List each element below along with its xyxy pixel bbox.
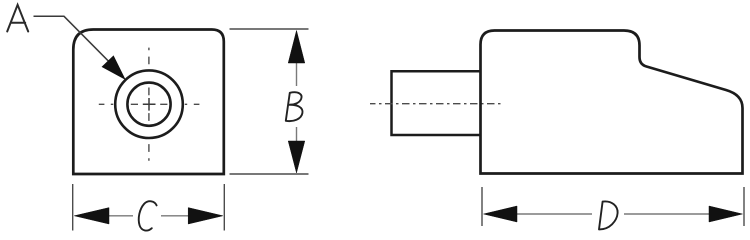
side view body outline [481,31,743,174]
dimension C right arrow [188,208,223,224]
dimension B bottom extension line [230,173,309,175]
dimension D left extension line [481,187,483,226]
dimension B line lower segment [296,127,298,143]
dimension D line right segment [624,213,709,215]
dimension C left extension line [72,184,74,231]
dimension D line left segment [517,213,592,215]
side view stub outline [392,71,481,135]
front view body outline [73,30,224,175]
dimension D right extension line [743,187,745,226]
hole inner circle [127,83,170,126]
side view centerline [370,103,502,105]
dimension C right extension line [223,184,225,231]
label B [286,92,303,121]
dimension B top extension line [230,28,309,30]
dimension D left arrow [484,206,518,222]
dimension B top arrow [288,31,305,64]
label D [599,201,618,229]
horizontal centerline [99,103,200,105]
vertical centerline [148,48,150,161]
dimension D right arrow [709,206,743,222]
hole outer circle [115,70,183,138]
label A [7,5,28,32]
dimension B bottom arrow [288,141,305,173]
dimension C line right segment [161,215,189,217]
label C [139,201,157,230]
dimension C line left segment [109,215,133,217]
dimension C left arrow [74,208,109,224]
dimension B line upper segment [296,62,298,86]
leader line A [34,16,111,62]
leader arrowhead [102,56,124,79]
center cross [143,98,156,111]
